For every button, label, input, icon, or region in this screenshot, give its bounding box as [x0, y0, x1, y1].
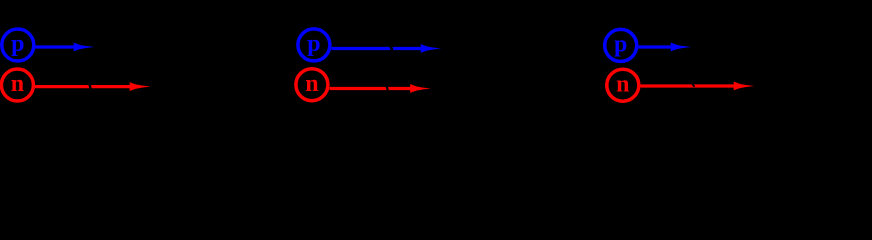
red arrowhead G3 — [734, 82, 755, 91]
black slash gap on red shaft G2 — [386, 85, 388, 90]
proton circle G2 — [298, 29, 330, 61]
blue arrowhead G2 — [421, 44, 442, 53]
neutron circle G2 — [296, 69, 328, 101]
wire: blue arrow shaft G2 — [332, 47, 424, 50]
black pinch on red shaft G3 — [692, 83, 694, 87]
proton circle G3 — [605, 29, 637, 61]
wire: red arrow shaft G3 — [640, 84, 736, 87]
blue arrowhead G3 — [671, 43, 692, 52]
wire: red arrow shaft G2 — [330, 87, 414, 90]
svg-text:n: n — [305, 71, 318, 97]
neutron circle G1 — [1, 69, 33, 101]
blue arrowhead G1 — [74, 43, 95, 52]
wire: blue arrow shaft G3 — [638, 45, 673, 48]
wire: red arrow shaft G1 — [35, 85, 133, 88]
wire: blue arrow shaft G1 — [35, 45, 76, 48]
red arrowhead G1 — [130, 82, 151, 91]
svg-text:n: n — [11, 71, 24, 97]
black slash gap on red shaft G1 — [89, 84, 91, 90]
svg-text:p: p — [307, 31, 320, 57]
svg-text:p: p — [614, 32, 627, 58]
svg-text:n: n — [616, 71, 629, 97]
neutron circle G3 — [607, 69, 639, 101]
proton circle G1 — [2, 29, 34, 61]
svg-text:p: p — [11, 31, 24, 57]
red arrowhead G2 — [410, 84, 431, 93]
black slash gap on blue shaft G2 — [391, 46, 393, 52]
